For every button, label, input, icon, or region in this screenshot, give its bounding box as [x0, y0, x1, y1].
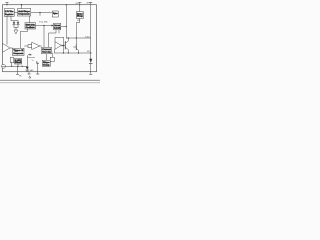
- node F Q1 emitter on rail: [68, 52, 69, 53]
- driver U10 bubble: [61, 45, 62, 46]
- svg-text:2.9V Bias: 2.9V Bias: [5, 11, 14, 13]
- wire A2 output: [40, 45, 42, 47]
- pin VSW (bottom right): [90, 72, 93, 75]
- wire U12 down: [17, 64, 19, 66]
- wire BOOST vertical rail: [90, 5, 92, 59]
- diode D1: [13, 21, 16, 28]
- wire bus U2 to U3: [31, 12, 53, 14]
- svg-text:Slope: Slope: [43, 62, 50, 64]
- wire U1 to U2: [14, 12, 17, 14]
- block U6 current limit: [54, 23, 61, 30]
- wire U7 down to U9: [46, 54, 48, 61]
- svg-text:Type II: Type II: [13, 50, 24, 52]
- wire VC pin vertical: [37, 64, 39, 72]
- node on border at pin SHDN: [6, 4, 7, 5]
- node C: [66, 26, 67, 27]
- block U1 bias regulator: [4, 9, 14, 17]
- node D at driver output: [63, 45, 64, 46]
- wire U8 down to ground diode: [26, 56, 28, 67]
- wire U6 bottom to U7: [49, 30, 57, 48]
- block U5 500kHz oscillator: [25, 23, 36, 29]
- ground: [27, 70, 29, 72]
- wire driver lower corner to emitter rail: [54, 49, 56, 53]
- node G Q2 emitter on rail: [78, 52, 79, 53]
- block U7 current sense amplifier: [42, 47, 52, 54]
- node B freq shift junction: [43, 25, 44, 26]
- substrate connection arrow: [14, 30, 18, 34]
- pin SHDN (top left): [6, 3, 9, 5]
- block U8 type II compensation: [13, 48, 25, 55]
- IC boundary box: [3, 5, 97, 72]
- wire stub down from node A: [39, 13, 41, 16]
- block U4 internal regulator: [77, 12, 84, 19]
- arrowhead into VC pin: [37, 62, 39, 64]
- wire U11 down: [11, 63, 13, 67]
- wire pin VIN to U4: [79, 5, 81, 12]
- wire node B down to U7: [43, 26, 45, 48]
- pin FB (bottom): [16, 72, 19, 75]
- driver U10 inverter triangle: [55, 42, 61, 49]
- node on border at pin VIN: [79, 4, 80, 5]
- wire driver output: [62, 45, 63, 47]
- node I on FB wire: [11, 66, 12, 67]
- node J on FB wire: [17, 66, 18, 67]
- wire SHDN pin down left side: [6, 16, 8, 44]
- pin VC (bottom): [37, 72, 40, 74]
- wire I1 to FB node: [6, 65, 28, 67]
- comparator A2 input stage box: [28, 45, 32, 48]
- node on border above U2: [21, 4, 22, 5]
- wire U4 down to Q2 collector: [76, 19, 80, 39]
- wire U2 down to U5: [29, 16, 31, 23]
- node H rail to VSW line: [90, 52, 91, 53]
- block U9 slope comp: [42, 60, 50, 66]
- transistor Q2 anti-sat: [74, 38, 79, 53]
- wire joining D1 D2 cathodes: [14, 26, 18, 28]
- diode D4 to ground: [26, 66, 29, 70]
- page rule upper line: [0, 79, 100, 82]
- page rule lower line: [0, 81, 100, 84]
- wire U6 second stub: [58, 30, 60, 33]
- node Q1 collector on rail: [68, 37, 69, 38]
- wire oscillator feedback loop: [20, 29, 27, 48]
- node E base pulldown on rail: [63, 52, 64, 53]
- node K on FB wire: [22, 66, 23, 67]
- block U2 slope compensation: [18, 9, 31, 17]
- wire VIN drop line: [65, 5, 67, 38]
- diode D3 on VSW line: [89, 59, 92, 72]
- svg-text:Comp: Comp: [43, 64, 50, 66]
- pin GND stub below border: [28, 72, 31, 74]
- arrowhead into U6: [52, 25, 54, 27]
- wire collector rail: [66, 37, 91, 39]
- resistor R1 sense box: [50, 57, 54, 61]
- GND terminal circle: [29, 76, 31, 78]
- wire emitter rail to sense resistor: [51, 53, 53, 57]
- pin BOOST (top far right): [90, 3, 93, 5]
- svg-text:500 kHz: 500 kHz: [26, 25, 35, 27]
- arrowhead of comparator label: [30, 54, 32, 56]
- wire to substrate arrow: [15, 27, 17, 30]
- transistor Q1 power switch: [64, 38, 69, 53]
- current source I1: [2, 64, 6, 68]
- wire emitter rail to VSW: [55, 52, 91, 54]
- wire A1 output: [10, 47, 13, 49]
- block U3 sync: [52, 11, 58, 17]
- wire U1 to diode pair: [11, 16, 18, 21]
- block U11 lockout: [10, 58, 14, 63]
- pin VIN (top right): [79, 3, 82, 5]
- node Q2 collector on rail: [76, 37, 77, 38]
- wire FB pin vertical: [17, 66, 19, 72]
- wire driver bootstrap loop: [55, 38, 64, 43]
- wire into comparator A2 input: [25, 45, 29, 47]
- node A on bus: [39, 12, 40, 13]
- wire Q1 base drive vertical: [63, 38, 65, 54]
- wire U6 to VIN drop line: [61, 26, 67, 28]
- block U12 1.245V reference: [15, 59, 23, 65]
- diode D2: [17, 21, 20, 28]
- op-amp A1 error amplifier: [3, 44, 10, 53]
- wire border to U2 top: [21, 5, 23, 9]
- comparator A2 triangle: [32, 43, 40, 50]
- node on border at VIN drop: [66, 4, 67, 5]
- wire U5 to U6: [36, 25, 53, 27]
